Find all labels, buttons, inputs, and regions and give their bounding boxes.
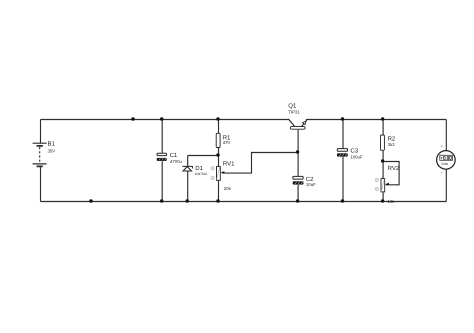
junction: C2 bottom xyxy=(296,199,299,202)
wire: RV2 top lead xyxy=(382,162,384,180)
battery B1 xyxy=(33,141,56,167)
capacitor C1 xyxy=(157,152,183,164)
svg-text:TIP31: TIP31 xyxy=(288,109,300,114)
wire: voltmeter top lead xyxy=(445,120,447,152)
voltmeter + terminal mark xyxy=(441,145,444,148)
junction: Q1 base / RV1 wiper node xyxy=(296,150,299,153)
wire: C1 bottom lead xyxy=(161,161,163,201)
wire: R2 top lead xyxy=(382,120,384,136)
svg-text:RV2: RV2 xyxy=(388,165,400,172)
svg-text:1N4751A: 1N4751A xyxy=(195,172,208,176)
voltmeter - terminal mark xyxy=(441,171,443,173)
capacitor C3 xyxy=(337,148,363,160)
potentiometer RV1 xyxy=(211,160,235,191)
junction: RV2 bottom xyxy=(381,199,384,202)
resistor R2 xyxy=(381,135,396,150)
junction: R2/RV2 node xyxy=(381,159,384,162)
Q1 emitter lead xyxy=(301,119,306,127)
wire: voltmeter bottom lead xyxy=(445,169,447,201)
junction: RV1 bottom xyxy=(216,199,219,202)
wire: C2 bottom lead xyxy=(297,185,299,202)
wire: R1 top lead xyxy=(218,120,220,134)
svg-text:100uF: 100uF xyxy=(350,154,363,159)
svg-text:20k: 20k xyxy=(224,186,232,191)
RV1 pin 2 marker xyxy=(211,176,214,179)
RV2 pin 1 marker xyxy=(375,178,378,181)
Q1 base bar xyxy=(290,127,305,130)
wire: D1 top lead xyxy=(187,156,189,167)
svg-text:4700u: 4700u xyxy=(170,159,183,164)
junction: C1 top xyxy=(160,117,163,120)
svg-text:Volts: Volts xyxy=(441,162,448,166)
RV1 pin 1 marker xyxy=(211,167,214,170)
capacitor C2 xyxy=(293,176,316,187)
voltmeter xyxy=(437,145,456,172)
wire: Q1 base down to C2 xyxy=(297,130,299,177)
svg-text:470: 470 xyxy=(223,140,231,145)
junction: D1 bottom xyxy=(186,199,189,202)
wire: R1 bottom lead to node xyxy=(218,148,220,156)
wire: D1 bottom lead xyxy=(187,172,189,202)
junction: R2 top xyxy=(381,117,384,120)
potentiometer RV2 xyxy=(375,165,400,204)
junction: C1 bottom xyxy=(160,199,163,202)
wire: bottom rail (ground return) xyxy=(41,201,447,203)
svg-text:35V: 35V xyxy=(48,148,56,153)
wire: top rail right (Q1 emitter to voltmeter) xyxy=(307,119,446,121)
junction: C3 top xyxy=(341,117,344,120)
wire: C3 top lead xyxy=(342,120,344,150)
zener diode D1 xyxy=(182,165,208,176)
Q1 emitter arrow xyxy=(303,121,306,125)
RV2 pin 2 marker xyxy=(375,187,378,190)
svg-text:3k3: 3k3 xyxy=(388,142,396,147)
transistor Q1 xyxy=(288,103,306,130)
junction: R1 top xyxy=(216,117,219,120)
junction: R1/D1/RV1 node xyxy=(216,153,219,156)
wire: RV1 top lead xyxy=(218,156,220,168)
junction: C3 bottom xyxy=(341,199,344,202)
wire: C1 top lead xyxy=(161,120,163,154)
svg-text:RV1: RV1 xyxy=(223,160,235,167)
wire: RV2 bottom lead xyxy=(382,192,384,201)
svg-text:10k: 10k xyxy=(388,199,396,204)
wire: R2 bottom lead xyxy=(382,151,384,162)
wire: node D1-RV1 horizontal xyxy=(188,155,219,157)
junction dot bottom rail x=91 xyxy=(89,199,93,203)
wire: top rail left (battery + to Q1 collector) xyxy=(41,119,289,121)
wire: RV2 rheostat loop wiper to top terminal xyxy=(383,162,399,185)
wire: RV1 wiper to Q1 base node xyxy=(222,153,298,174)
wire: battery top lead xyxy=(40,120,42,144)
svg-text:10uF: 10uF xyxy=(306,182,316,187)
svg-text:B1: B1 xyxy=(48,141,56,148)
wire: C3 bottom lead xyxy=(342,157,344,202)
junction dot top rail x=133 xyxy=(131,117,135,121)
wire: battery bottom lead xyxy=(40,167,42,201)
Q1 collector lead xyxy=(288,119,294,126)
wire: RV1 bottom lead xyxy=(218,181,220,202)
resistor R1 xyxy=(216,133,231,147)
